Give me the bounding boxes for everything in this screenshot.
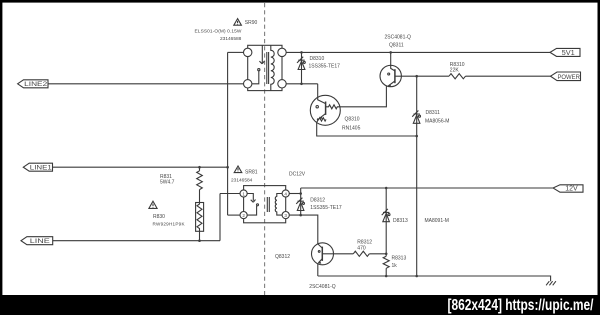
svg-text:1k: 1k: [392, 263, 398, 269]
wire T8301 pin3 to Q8312: [289, 215, 318, 244]
svg-text:22K: 22K: [450, 68, 460, 74]
wire 5V1 rail from T8300 pin4 to 5V1 flag: [286, 51, 550, 53]
wire R831 top lead: [199, 167, 201, 171]
wire D8310 vertical: [301, 52, 303, 83]
digital transistor Q8310: [310, 95, 340, 125]
wire R831 to R830: [199, 190, 201, 203]
svg-text:DC12V: DC12V: [289, 172, 306, 178]
svg-text:MA8056-M: MA8056-M: [425, 118, 449, 124]
svg-text:RW929H1P9K: RW929H1P9K: [153, 222, 186, 227]
ground: [546, 281, 556, 285]
svg-text:5V1: 5V1: [562, 48, 575, 57]
svg-text:RN1405: RN1405: [342, 126, 361, 132]
watermark bar: [0, 295, 600, 315]
transistor Q8311: [380, 65, 401, 86]
svg-text:1SS355-TE17: 1SS355-TE17: [309, 63, 341, 69]
surge gap SR81 upper electrode: [247, 194, 255, 203]
wire LINE2 to upper transformer bottom-left pin: [48, 83, 244, 85]
transistor Q8312: [312, 243, 334, 265]
wire upper transformer pin RB to Q8310 branch: [286, 83, 318, 85]
junction node D8310/pin3 wire: [300, 83, 303, 86]
junction node POWER wire/D8311: [415, 75, 418, 78]
junction node 12V rail/D8313: [385, 187, 388, 190]
zener diode D8313: [382, 209, 390, 222]
transformer T8301 secondary winding: [275, 194, 282, 216]
wire Q8310 emitter to D8311 node: [317, 123, 417, 136]
svg-text:23146588: 23146588: [220, 36, 242, 42]
wire Q8311 to R8310: [401, 75, 449, 77]
surge gap SR90 contact circle: [258, 69, 260, 71]
wire Q8310 input drop: [317, 84, 319, 98]
wire D8311 vertical bus x=416.7: [416, 76, 418, 276]
warning triangle SR90: [234, 19, 242, 26]
junction node R8312/R8313/D8313: [385, 253, 388, 256]
wire vertical x=220 LINE to pin1 level: [219, 194, 221, 241]
surge gap SR90 lower electrode path: [252, 71, 259, 84]
transformer T8300 secondary winding: [271, 45, 274, 90]
wire R8313 leads: [385, 254, 387, 276]
junction node 5V rail/Q8311: [389, 51, 392, 54]
svg-text:1: 1: [242, 191, 245, 196]
isolation dashed line: [264, 3, 266, 295]
svg-text:470: 470: [357, 246, 366, 252]
wire left bus to T8301 pin2: [228, 214, 240, 216]
junction node LINE1/R831: [198, 166, 201, 169]
surge gap SR81 lower electrode path: [247, 206, 256, 215]
transformer T8300 pin bottom-left: [244, 80, 252, 88]
svg-text:LINE1: LINE1: [30, 165, 52, 172]
svg-text:1SS355-TE17: 1SS355-TE17: [310, 205, 342, 211]
warning triangle R830: [149, 201, 157, 208]
resistor R8313: [383, 256, 389, 268]
transformer T8301 pin 1: [240, 190, 247, 197]
transformer T8301 outline: [244, 186, 286, 223]
wire T8301 pin4 to D8312 node: [289, 193, 300, 195]
diode D8311: [412, 111, 420, 124]
wire to T8301 pin1: [220, 193, 240, 195]
svg-text:D8313: D8313: [393, 218, 408, 224]
junction node ground rail/R8313: [385, 275, 388, 278]
svg-text:ELSS01-O(M) 0.15W: ELSS01-O(M) 0.15W: [195, 28, 242, 34]
surge gap SR90 upper electrode: [259, 45, 264, 64]
connector flag POWER: [551, 72, 581, 81]
svg-text:Q8310: Q8310: [345, 117, 360, 123]
svg-text:D8310: D8310: [310, 56, 325, 62]
resistor R831: [197, 171, 203, 190]
svg-text:2SC4081-Q: 2SC4081-Q: [309, 284, 336, 290]
transformer T8301 pin 4: [282, 190, 289, 197]
transformer T8300 core: [267, 52, 269, 84]
transformer T8301 pin 2: [240, 212, 247, 219]
connector flag LINE1: [23, 163, 52, 171]
svg-text:12V: 12V: [565, 186, 578, 193]
svg-text:R8312: R8312: [357, 239, 372, 245]
wire 12V rail to 12V flag: [301, 187, 553, 189]
svg-text:23146584: 23146584: [231, 177, 253, 183]
wire R830 bottom lead: [199, 231, 201, 240]
svg-text:D8311: D8311: [426, 110, 441, 116]
svg-text:4: 4: [284, 191, 287, 196]
svg-text:R830: R830: [153, 214, 165, 220]
svg-text:POWER: POWER: [557, 75, 580, 81]
svg-text:2: 2: [242, 213, 245, 218]
junction node LINE1/left bus: [226, 166, 229, 169]
junction node 5V rail/D8310: [300, 51, 303, 54]
connector flag 12V: [553, 185, 583, 192]
svg-text:[862x424] https://upic.me/: [862x424] https://upic.me/: [448, 297, 595, 314]
wire Q8311 base to Q8310 output: [340, 86, 386, 107]
resistor R830 internal element: [197, 203, 202, 232]
svg-text:D8312: D8312: [310, 198, 325, 204]
wire upper transformer top-left pin to left vertical: [228, 51, 244, 53]
transformer T8301 core: [267, 197, 269, 212]
transformer T8300 pin bottom-right: [278, 80, 286, 88]
connector flag LINE2: [18, 80, 48, 88]
svg-text:3: 3: [284, 213, 287, 218]
svg-text:Q8312: Q8312: [275, 254, 290, 260]
svg-text:5W4.7: 5W4.7: [160, 180, 175, 186]
wire left vertical bus x=227.6: [227, 52, 229, 215]
surge gap SR81 contact circle: [257, 204, 259, 206]
wire R8310 to POWER flag: [466, 75, 551, 77]
wire LINE1 to left bus: [53, 166, 228, 168]
svg-text:SR81: SR81: [245, 170, 258, 176]
svg-text:LINE: LINE: [30, 238, 51, 245]
svg-text:LINE2: LINE2: [24, 81, 47, 88]
junction node LINE/R830: [198, 239, 201, 242]
junction node pin4/D8312: [299, 192, 302, 195]
transformer T8300 pin top-left: [244, 48, 252, 56]
junction node ground rail/D8311 bus: [415, 275, 418, 278]
transformer T8300 outline: [248, 45, 282, 90]
svg-text:R8313: R8313: [392, 255, 407, 261]
resistor R8312: [353, 251, 369, 256]
wire Q8312 emitter drop: [317, 264, 319, 276]
resistor R830 box: [196, 203, 204, 232]
transformer T8300 pin top-right: [278, 48, 286, 56]
wire ground rail bottom: [318, 276, 551, 281]
wire R8312 to R8313 node: [369, 253, 386, 255]
wire Q8311 collector to 5V1 rail: [390, 52, 392, 65]
diode D8310: [297, 57, 305, 70]
wire D8313 vertical: [385, 188, 387, 254]
wire Q8312 base to R8312: [334, 253, 354, 255]
connector flag 5V1: [550, 48, 580, 56]
transformer T8301 pin 3: [282, 212, 289, 219]
wire LINE horizontal: [53, 240, 220, 242]
resistor R8310: [449, 74, 466, 79]
svg-text:SR90: SR90: [245, 20, 258, 26]
warning triangle SR81: [234, 166, 242, 173]
junction node Q8310 emitter/D8311 bus: [415, 135, 418, 138]
svg-text:2SC4081-Q: 2SC4081-Q: [385, 35, 412, 41]
diode D8312: [296, 198, 304, 211]
svg-text:MA8091-M: MA8091-M: [425, 218, 449, 224]
svg-text:Q8311: Q8311: [389, 43, 404, 49]
connector flag LINE: [21, 237, 53, 245]
junction node pin3 wire/D8312: [299, 214, 302, 217]
wire D8312 vertical: [300, 188, 302, 215]
